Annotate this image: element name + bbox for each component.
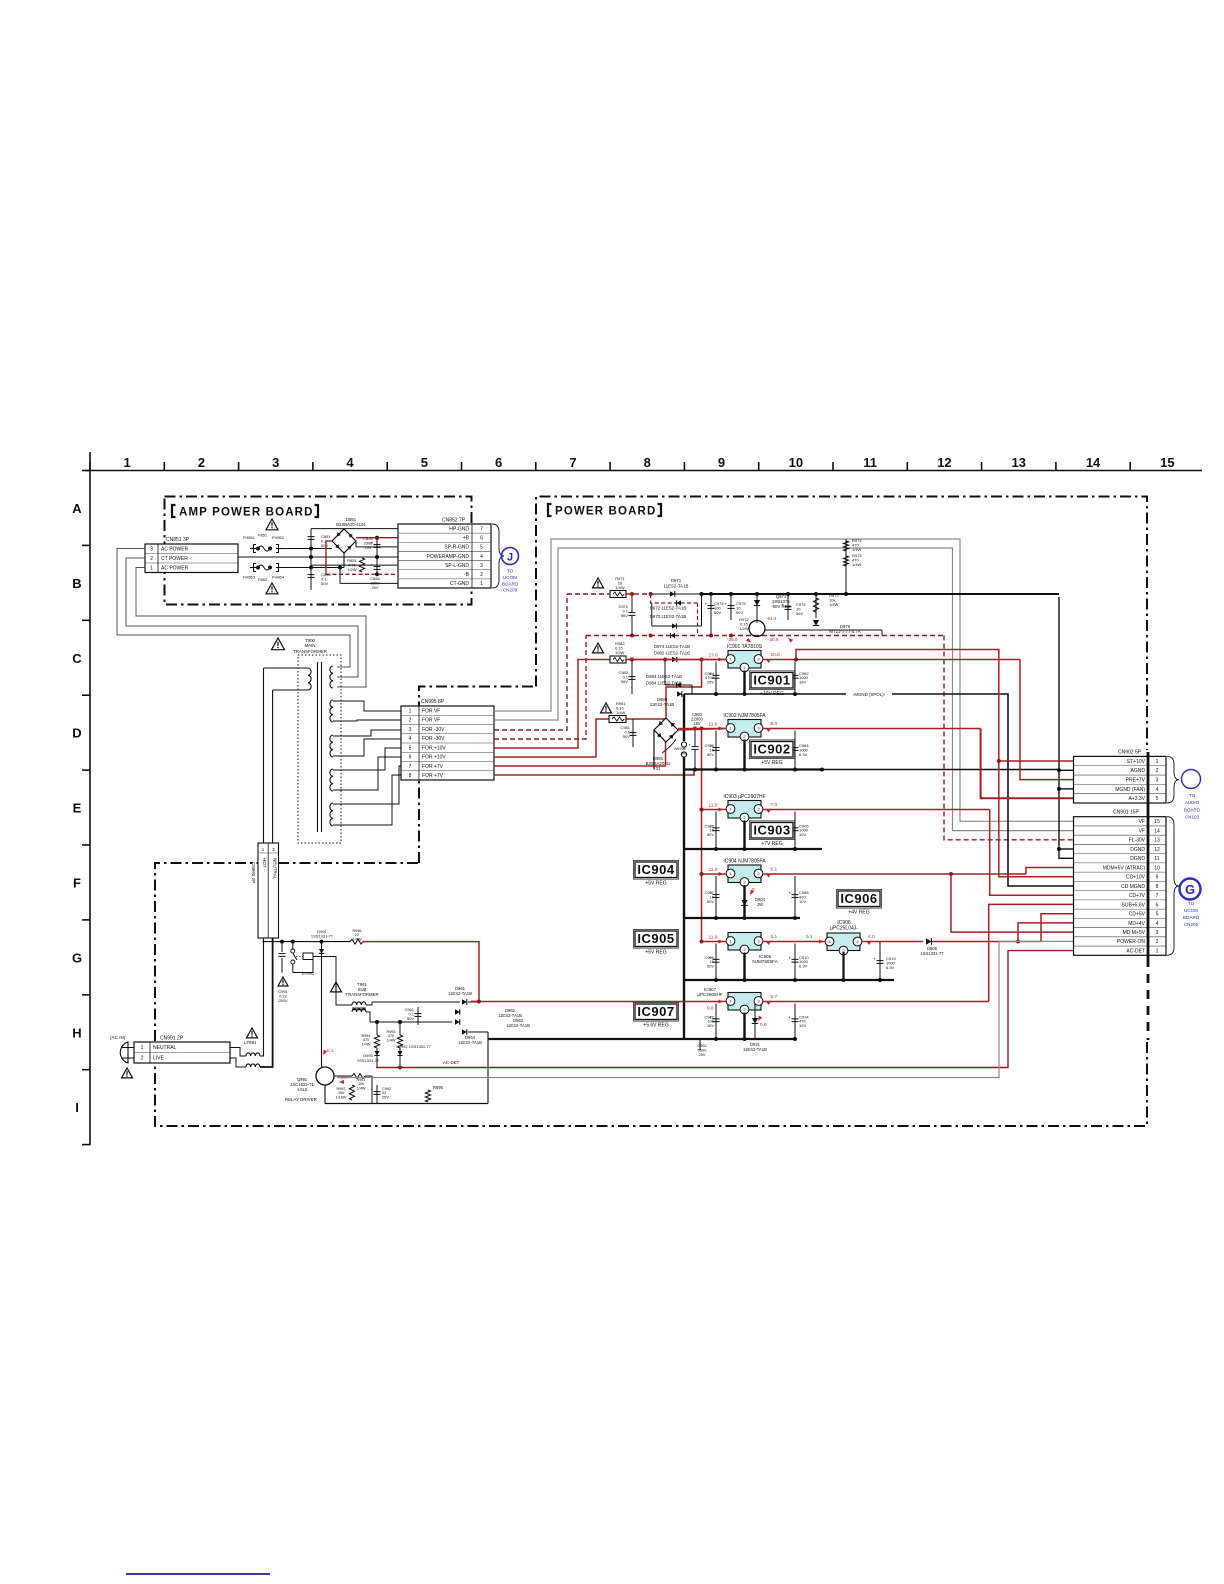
svg-text:FH854: FH854 bbox=[272, 575, 285, 580]
svg-text:1SS1331-77: 1SS1331-77 bbox=[311, 934, 334, 939]
svg-text:50V: 50V bbox=[407, 1016, 414, 1021]
svg-text:50V: 50V bbox=[736, 610, 743, 615]
svg-text:TRANSFORMER: TRANSFORMER bbox=[345, 992, 378, 997]
svg-text:10.0: 10.0 bbox=[771, 652, 781, 658]
svg-text:TO: TO bbox=[1188, 901, 1195, 906]
svg-text:1SS1331-77: 1SS1331-77 bbox=[920, 951, 944, 956]
svg-text:LF991: LF991 bbox=[244, 1040, 257, 1045]
svg-text:25V: 25V bbox=[707, 680, 714, 685]
svg-text:1/2W: 1/2W bbox=[615, 650, 625, 655]
svg-text:+: + bbox=[371, 563, 374, 568]
svg-text:BOARD: BOARD bbox=[1184, 807, 1201, 812]
svg-text:FH853: FH853 bbox=[243, 575, 256, 580]
svg-text:E: E bbox=[73, 801, 82, 816]
svg-text:H: H bbox=[72, 1025, 81, 1040]
svg-text:ST+10V: ST+10V bbox=[1127, 759, 1146, 765]
svg-text:50V: 50V bbox=[707, 899, 714, 904]
svg-text:11: 11 bbox=[1154, 856, 1159, 862]
svg-text:+5V REG: +5V REG bbox=[645, 950, 666, 956]
svg-text:10V: 10V bbox=[799, 1023, 806, 1028]
svg-text:CN902 5P: CN902 5P bbox=[1118, 750, 1142, 756]
svg-text:9.8: 9.8 bbox=[707, 1006, 714, 1012]
svg-text:MAIN: MAIN bbox=[305, 643, 316, 648]
svg-text:FH852: FH852 bbox=[272, 535, 285, 540]
svg-text:AC POWER: AC POWER bbox=[161, 547, 189, 553]
svg-text:BOARD: BOARD bbox=[1183, 915, 1200, 920]
svg-text:25V: 25V bbox=[364, 545, 371, 550]
svg-text:7: 7 bbox=[569, 455, 576, 470]
svg-text:-L5L6: -L5L6 bbox=[297, 1087, 308, 1092]
svg-text:11ES2-TA1B: 11ES2-TA1B bbox=[448, 991, 472, 996]
svg-text:6: 6 bbox=[495, 455, 502, 470]
svg-text:4: 4 bbox=[346, 455, 354, 470]
svg-text:6: 6 bbox=[409, 755, 412, 761]
svg-text:IC902 NJM7805FA: IC902 NJM7805FA bbox=[723, 713, 766, 719]
svg-text:NEUTRAL: NEUTRAL bbox=[273, 858, 278, 880]
svg-text:4: 4 bbox=[409, 736, 412, 742]
svg-text:F852: F852 bbox=[258, 577, 268, 582]
svg-text:FOR -30V: FOR -30V bbox=[422, 727, 445, 733]
svg-text:D983 11ES2-TA1B: D983 11ES2-TA1B bbox=[646, 674, 682, 679]
svg-text:TO: TO bbox=[1189, 793, 1196, 798]
svg-text:11ES2-TA1B: 11ES2-TA1B bbox=[458, 1040, 482, 1045]
svg-text:5: 5 bbox=[421, 455, 428, 470]
svg-text:1: 1 bbox=[480, 581, 483, 587]
svg-text:13: 13 bbox=[1012, 455, 1026, 470]
svg-text:11.0: 11.0 bbox=[709, 722, 718, 728]
svg-text:10V: 10V bbox=[799, 899, 806, 904]
svg-text:12: 12 bbox=[937, 455, 951, 470]
svg-text:AGND: AGND bbox=[1131, 768, 1146, 774]
svg-text:IC903 µPC2907HF: IC903 µPC2907HF bbox=[723, 794, 765, 800]
svg-text:3: 3 bbox=[272, 455, 279, 470]
svg-text:2: 2 bbox=[1156, 939, 1159, 945]
svg-text:+: + bbox=[782, 603, 785, 608]
svg-text:NJM7805FA: NJM7805FA bbox=[752, 959, 778, 964]
svg-text:CN991 2P: CN991 2P bbox=[160, 1036, 184, 1042]
svg-text:1: 1 bbox=[150, 566, 153, 572]
svg-text:1: 1 bbox=[1156, 759, 1159, 765]
svg-text:HOT: HOT bbox=[262, 858, 267, 868]
svg-text:F: F bbox=[73, 875, 81, 890]
svg-text:+: + bbox=[725, 602, 728, 607]
svg-text:5: 5 bbox=[409, 745, 412, 751]
svg-text:0.1: 0.1 bbox=[327, 1048, 334, 1053]
svg-text:7: 7 bbox=[1156, 893, 1159, 899]
svg-text:MDM+5V (ATRAC): MDM+5V (ATRAC) bbox=[1103, 865, 1146, 871]
svg-text:5: 5 bbox=[480, 545, 483, 551]
svg-text:JW: JW bbox=[757, 902, 763, 907]
svg-text:D974 11ES2-TA1B: D974 11ES2-TA1B bbox=[654, 644, 690, 649]
svg-text:11ES2-TA1B: 11ES2-TA1B bbox=[664, 583, 689, 588]
svg-text:1: 1 bbox=[124, 455, 131, 470]
svg-text:JW: JW bbox=[680, 751, 686, 756]
svg-text:5: 5 bbox=[1156, 912, 1159, 918]
svg-text:A+3.3V: A+3.3V bbox=[1128, 796, 1145, 802]
svg-text:MGND (FAN): MGND (FAN) bbox=[1115, 787, 1145, 793]
svg-text:TO: TO bbox=[507, 569, 514, 574]
svg-text:DGND: DGND bbox=[1130, 856, 1145, 862]
svg-text:6.3V: 6.3V bbox=[886, 965, 895, 970]
svg-text:(AC IN): (AC IN) bbox=[110, 1035, 126, 1040]
svg-text:11.0: 11.0 bbox=[709, 935, 718, 941]
svg-text:FH851: FH851 bbox=[243, 535, 256, 540]
svg-text:I: I bbox=[75, 1100, 79, 1115]
svg-text:56V: 56V bbox=[621, 679, 628, 684]
svg-text:25V: 25V bbox=[382, 1095, 389, 1099]
svg-text:50V: 50V bbox=[321, 581, 328, 586]
svg-text:D992 1SS1331-77: D992 1SS1331-77 bbox=[398, 1044, 432, 1049]
svg-text:CN995 8P: CN995 8P bbox=[421, 699, 445, 705]
svg-text:CN901 15P: CN901 15P bbox=[1113, 810, 1140, 816]
svg-text:3: 3 bbox=[1156, 930, 1159, 936]
svg-text:5.1: 5.1 bbox=[806, 934, 813, 940]
svg-text:CD MGND: CD MGND bbox=[1121, 884, 1145, 890]
svg-text:F851: F851 bbox=[258, 533, 268, 538]
svg-text:AC POWER: AC POWER bbox=[161, 566, 189, 572]
svg-text:6.3V: 6.3V bbox=[799, 752, 808, 757]
svg-text:+10V REG: +10V REG bbox=[760, 691, 784, 697]
svg-text:6.3V: 6.3V bbox=[799, 964, 808, 969]
svg-text:13: 13 bbox=[1154, 838, 1160, 844]
svg-text:17.6: 17.6 bbox=[709, 653, 719, 659]
svg-text:-30.9: -30.9 bbox=[768, 637, 779, 642]
svg-text:9: 9 bbox=[718, 455, 725, 470]
svg-text:CT POWER: CT POWER bbox=[161, 556, 188, 562]
svg-text:25V: 25V bbox=[698, 1052, 705, 1057]
svg-text:IC906: IC906 bbox=[840, 891, 877, 906]
svg-text:14: 14 bbox=[1086, 455, 1101, 470]
svg-text:IC901 TA7810S: IC901 TA7810S bbox=[727, 644, 763, 650]
svg-text:8: 8 bbox=[409, 773, 412, 779]
svg-text:CN206: CN206 bbox=[503, 588, 518, 593]
svg-text:+5.6V REG: +5.6V REG bbox=[643, 1023, 669, 1029]
svg-text:AC-DET: AC-DET bbox=[443, 1060, 460, 1065]
svg-text:9: 9 bbox=[1156, 875, 1159, 881]
svg-text:SUB+5.6V: SUB+5.6V bbox=[1122, 902, 1146, 908]
svg-text:G: G bbox=[1185, 882, 1195, 897]
svg-text:1/4W: 1/4W bbox=[852, 562, 862, 567]
svg-text:50V: 50V bbox=[707, 832, 714, 837]
svg-text:+: + bbox=[789, 891, 792, 896]
svg-text:4: 4 bbox=[480, 554, 483, 560]
svg-text:CT-GND: CT-GND bbox=[450, 581, 470, 587]
svg-text:16V: 16V bbox=[707, 1023, 714, 1028]
svg-text:5.1: 5.1 bbox=[771, 867, 778, 873]
svg-text:C: C bbox=[72, 651, 82, 666]
svg-text:+: + bbox=[371, 1088, 374, 1093]
svg-text:+: + bbox=[705, 602, 708, 607]
svg-text:D: D bbox=[72, 726, 81, 741]
svg-text:10: 10 bbox=[1154, 865, 1160, 871]
svg-text:CN851 3P: CN851 3P bbox=[166, 537, 190, 543]
svg-text:7: 7 bbox=[409, 764, 412, 770]
svg-text:+4V REG: +4V REG bbox=[848, 910, 869, 916]
svg-text:01: 01 bbox=[656, 766, 661, 771]
svg-text:50V: 50V bbox=[707, 964, 714, 969]
svg-text:1/4W: 1/4W bbox=[615, 585, 625, 590]
svg-text:2: 2 bbox=[409, 718, 412, 724]
svg-text:-51.4: -51.4 bbox=[766, 616, 777, 621]
svg-text:NEUTRAL: NEUTRAL bbox=[153, 1045, 177, 1051]
svg-text:4.0: 4.0 bbox=[868, 934, 875, 940]
svg-text:+5V REG: +5V REG bbox=[761, 760, 782, 766]
svg-text:10: 10 bbox=[789, 455, 803, 470]
svg-text:56V: 56V bbox=[796, 611, 803, 616]
svg-text:CD+5V: CD+5V bbox=[1129, 912, 1146, 918]
svg-text:3: 3 bbox=[150, 547, 153, 553]
svg-text:PRE+7V: PRE+7V bbox=[1126, 778, 1146, 784]
svg-text:µPC2905HF: µPC2905HF bbox=[697, 992, 723, 997]
svg-text:+5V REG: +5V REG bbox=[645, 881, 666, 887]
svg-text:FOR +7V: FOR +7V bbox=[422, 773, 444, 779]
svg-text:MD+4V: MD+4V bbox=[1128, 921, 1145, 927]
svg-text:1: 1 bbox=[409, 708, 412, 714]
svg-text:IC905: IC905 bbox=[637, 931, 674, 946]
svg-text:MD M+5V: MD M+5V bbox=[1123, 930, 1146, 936]
svg-text:2: 2 bbox=[141, 1056, 144, 1062]
svg-text:1/4W: 1/4W bbox=[852, 547, 862, 552]
svg-text:11: 11 bbox=[863, 455, 877, 470]
svg-text:SP-R-GND: SP-R-GND bbox=[444, 545, 469, 551]
svg-text:1/4W: 1/4W bbox=[829, 602, 839, 607]
svg-text:15: 15 bbox=[1160, 455, 1174, 470]
svg-text:11ES2-TA1B: 11ES2-TA1B bbox=[743, 1047, 767, 1052]
svg-text:+7V REG: +7V REG bbox=[761, 841, 782, 847]
svg-text:B3SBA20-4101: B3SBA20-4101 bbox=[336, 522, 366, 527]
svg-text:1/4W: 1/4W bbox=[387, 1038, 396, 1042]
svg-text:14: 14 bbox=[1154, 828, 1160, 834]
svg-text:D982 11ES2-TA1B: D982 11ES2-TA1B bbox=[654, 651, 690, 656]
svg-text:1SS1331-77: 1SS1331-77 bbox=[357, 1058, 380, 1063]
svg-text:FOR +10V: FOR +10V bbox=[422, 755, 446, 761]
svg-text:DGND: DGND bbox=[1130, 847, 1145, 853]
svg-text:POWERAMP-GND: POWERAMP-GND bbox=[427, 554, 470, 560]
svg-text:AUDIO: AUDIO bbox=[1185, 800, 1200, 805]
svg-text:-36.0: -36.0 bbox=[727, 637, 738, 642]
svg-text:FOR -30V: FOR -30V bbox=[422, 736, 445, 742]
svg-text:‹MGND (SPOL)›: ‹MGND (SPOL)› bbox=[853, 692, 886, 697]
svg-text:50V: 50V bbox=[623, 734, 630, 739]
svg-text:2: 2 bbox=[480, 572, 483, 578]
svg-text:A: A bbox=[72, 501, 82, 516]
svg-text:11.0: 11.0 bbox=[709, 803, 718, 809]
svg-text:POWER-ON: POWER-ON bbox=[1117, 939, 1145, 945]
svg-text:2: 2 bbox=[1156, 768, 1159, 774]
svg-text:11ES2-TA1B: 11ES2-TA1B bbox=[506, 1023, 530, 1028]
svg-text:POWER BOARD: POWER BOARD bbox=[555, 506, 656, 518]
svg-text:HP-GND: HP-GND bbox=[449, 526, 469, 532]
svg-text:3: 3 bbox=[409, 727, 412, 733]
svg-text:TRANSFORMER: TRANSFORMER bbox=[293, 649, 327, 654]
svg-text:11.0: 11.0 bbox=[709, 867, 718, 873]
svg-text:+B: +B bbox=[463, 536, 470, 542]
svg-text:1/4W: 1/4W bbox=[353, 937, 362, 941]
svg-text:+: + bbox=[689, 743, 692, 748]
svg-text:5.7: 5.7 bbox=[771, 994, 778, 1000]
svg-text:4: 4 bbox=[1156, 787, 1159, 793]
svg-text:RELAY DRIVER: RELAY DRIVER bbox=[285, 1097, 317, 1102]
svg-text:AC-DET: AC-DET bbox=[1126, 948, 1145, 954]
svg-text:J: J bbox=[507, 552, 513, 564]
svg-text:1/2W: 1/2W bbox=[347, 567, 357, 572]
svg-text:CD+7V: CD+7V bbox=[1129, 893, 1146, 899]
svg-text:2: 2 bbox=[150, 556, 153, 562]
svg-text:FOR +10V: FOR +10V bbox=[422, 745, 446, 751]
svg-text:+: + bbox=[789, 1015, 792, 1020]
svg-text:7: 7 bbox=[480, 526, 483, 532]
svg-text:D973 11ES2-TA1B: D973 11ES2-TA1B bbox=[650, 614, 687, 619]
svg-text:3: 3 bbox=[480, 563, 483, 569]
svg-text:UCOM: UCOM bbox=[1184, 908, 1198, 913]
svg-text:1/16W: 1/16W bbox=[336, 1095, 347, 1099]
svg-text:B: B bbox=[72, 576, 81, 591]
svg-text:50V: 50V bbox=[707, 752, 714, 757]
svg-text:1/2W: 1/2W bbox=[739, 626, 749, 631]
svg-text:IC904: IC904 bbox=[637, 862, 674, 877]
svg-text:6: 6 bbox=[1156, 902, 1159, 908]
svg-text:G: G bbox=[72, 950, 82, 965]
svg-text:250V: 250V bbox=[278, 998, 288, 1003]
svg-text:1/4W: 1/4W bbox=[616, 710, 626, 715]
svg-text:5.1: 5.1 bbox=[771, 934, 778, 940]
svg-text:12: 12 bbox=[1154, 847, 1160, 853]
svg-text:FL-30V: FL-30V bbox=[1129, 838, 1146, 844]
svg-text:15: 15 bbox=[1154, 819, 1160, 825]
svg-text:CN205: CN205 bbox=[1184, 922, 1199, 927]
svg-text:16V: 16V bbox=[799, 680, 806, 685]
svg-text:56V: 56V bbox=[621, 613, 628, 618]
svg-text:8: 8 bbox=[644, 455, 651, 470]
svg-text:0.6: 0.6 bbox=[760, 1022, 767, 1028]
svg-text:FOR VF: FOR VF bbox=[422, 718, 440, 724]
svg-text:IC903: IC903 bbox=[753, 823, 790, 838]
svg-text:IC907: IC907 bbox=[637, 1004, 674, 1019]
svg-text:2: 2 bbox=[198, 455, 205, 470]
svg-text:16V: 16V bbox=[693, 721, 701, 726]
svg-text:1: 1 bbox=[1156, 948, 1159, 954]
svg-text:CD+10V: CD+10V bbox=[1126, 875, 1146, 881]
svg-text:SP-L-GND: SP-L-GND bbox=[445, 563, 469, 569]
svg-text:3: 3 bbox=[1156, 778, 1159, 784]
svg-text:CN103: CN103 bbox=[1185, 815, 1200, 820]
svg-text:IC901: IC901 bbox=[753, 673, 790, 688]
svg-text:25V: 25V bbox=[371, 585, 378, 590]
svg-text:LIVE: LIVE bbox=[153, 1056, 165, 1062]
svg-text:8: 8 bbox=[1156, 884, 1159, 890]
svg-text:50V: 50V bbox=[321, 543, 328, 548]
svg-text:BOARD: BOARD bbox=[502, 581, 519, 586]
svg-text:50V: 50V bbox=[714, 610, 721, 615]
svg-text:IC904 NJM7805FA: IC904 NJM7805FA bbox=[723, 859, 766, 865]
svg-text:1/4W: 1/4W bbox=[357, 1086, 366, 1090]
svg-text:1/4W: 1/4W bbox=[362, 1042, 371, 1046]
svg-text:MTZJ-T-77-4.7A: MTZJ-T-77-4.7A bbox=[829, 629, 860, 634]
svg-text:+: + bbox=[874, 957, 877, 962]
svg-text:1: 1 bbox=[141, 1045, 144, 1051]
svg-text:+: + bbox=[789, 955, 792, 960]
svg-text:VF: VF bbox=[1139, 819, 1145, 825]
svg-text:6: 6 bbox=[480, 536, 483, 542]
svg-text:4: 4 bbox=[1156, 921, 1159, 927]
svg-text:CN852 7P: CN852 7P bbox=[442, 518, 466, 524]
svg-text:VF: VF bbox=[1139, 828, 1145, 834]
svg-text:5: 5 bbox=[1156, 796, 1159, 802]
svg-text:-B: -B bbox=[464, 572, 470, 578]
svg-text:7.0: 7.0 bbox=[771, 802, 778, 808]
svg-text:10V: 10V bbox=[799, 832, 806, 837]
svg-text:CN992 2P: CN992 2P bbox=[251, 862, 256, 883]
svg-text:µPC25L04J-: µPC25L04J- bbox=[830, 926, 858, 932]
svg-text:AMP POWER BOARD: AMP POWER BOARD bbox=[179, 507, 314, 519]
svg-text:D972 11ES2-TA1B: D972 11ES2-TA1B bbox=[650, 606, 687, 611]
svg-text:R995: R995 bbox=[433, 1085, 444, 1090]
svg-text:5.0: 5.0 bbox=[771, 721, 778, 727]
svg-text:D984 11ES2-TA1B: D984 11ES2-TA1B bbox=[646, 681, 682, 686]
svg-text:UCOM: UCOM bbox=[503, 575, 517, 580]
svg-text:FOR +7V: FOR +7V bbox=[422, 764, 444, 770]
svg-text:D971: D971 bbox=[671, 578, 682, 583]
svg-text:IC902: IC902 bbox=[753, 742, 790, 757]
svg-text:FOR VF: FOR VF bbox=[422, 708, 440, 714]
svg-text:11ES2-TA1B: 11ES2-TA1B bbox=[650, 702, 675, 707]
